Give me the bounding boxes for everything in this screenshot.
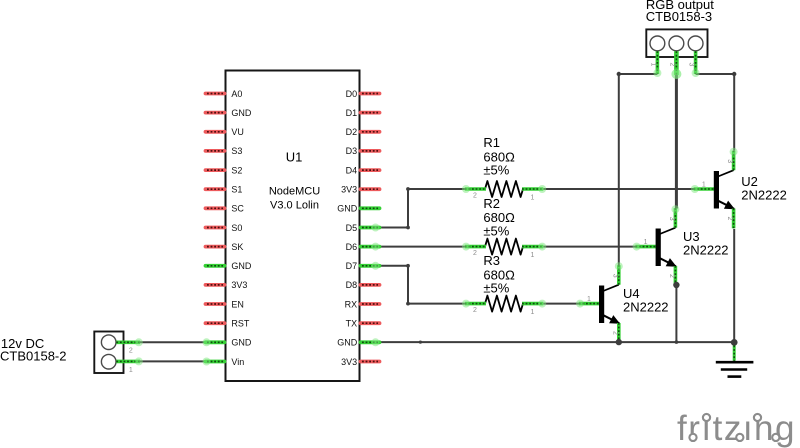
svg-text:D0: D0 bbox=[346, 89, 358, 99]
resistor R2 bbox=[462, 196, 546, 259]
svg-text:SC: SC bbox=[231, 204, 244, 214]
wire 12v pin1 to NodeMCU Vin bbox=[139, 360, 208, 362]
svg-text:2N2222: 2N2222 bbox=[683, 242, 729, 257]
label CTB0158-3 bbox=[646, 9, 712, 24]
svg-text:VU: VU bbox=[231, 127, 244, 137]
svg-text:EN: EN bbox=[231, 299, 244, 309]
svg-text:1: 1 bbox=[129, 367, 133, 374]
wire D6 to R2 bbox=[372, 246, 465, 248]
svg-text:D8: D8 bbox=[346, 280, 358, 290]
junction U2 emitter / ground on rail bbox=[731, 339, 738, 346]
svg-text:R3: R3 bbox=[483, 253, 500, 268]
IC U1 NodeMCU body bbox=[226, 71, 360, 382]
svg-text:1: 1 bbox=[644, 239, 648, 246]
wire D5 to R1 bbox=[372, 187, 465, 229]
svg-text:±5%: ±5% bbox=[483, 163, 509, 178]
12v pin 2 stub bbox=[116, 338, 143, 354]
pin right GND row 7 bbox=[337, 204, 379, 214]
svg-text:RX: RX bbox=[345, 299, 358, 309]
svg-text:3V3: 3V3 bbox=[231, 280, 247, 290]
svg-text:S2: S2 bbox=[231, 165, 242, 175]
pin left 3V3 row 11 bbox=[206, 280, 248, 290]
svg-text:±5%: ±5% bbox=[483, 224, 509, 239]
svg-text:U1: U1 bbox=[286, 150, 303, 165]
pin left VU row 3 bbox=[206, 127, 244, 137]
svg-text:2: 2 bbox=[129, 348, 133, 355]
wire R3 to U4 base bbox=[543, 303, 579, 305]
pin right D8 row 11 bbox=[346, 280, 380, 290]
wire middle vertical RGB pin2 to U3 collector bbox=[675, 74, 678, 209]
pin left GND row 14 bbox=[203, 338, 252, 348]
svg-text:GND: GND bbox=[231, 108, 252, 118]
pin right D2 row 3 bbox=[346, 127, 380, 137]
svg-text:GND: GND bbox=[337, 338, 358, 348]
svg-text:2: 2 bbox=[611, 331, 618, 335]
transistor U2 2N2222 bbox=[691, 148, 787, 229]
transistor U4 2N2222 bbox=[576, 262, 669, 343]
svg-text:NodeMCU: NodeMCU bbox=[269, 185, 320, 197]
svg-text:2: 2 bbox=[473, 193, 477, 200]
label CTB0158-2 bbox=[0, 349, 66, 364]
transistor U3 2N2222 bbox=[633, 205, 729, 286]
svg-text:1: 1 bbox=[702, 182, 706, 189]
pin right GND row 14 bbox=[337, 338, 379, 348]
pin left S1 row 6 bbox=[206, 185, 243, 195]
pin left S3 row 4 bbox=[206, 146, 243, 156]
svg-text:1: 1 bbox=[531, 309, 535, 316]
pin right TX row 13 bbox=[346, 319, 380, 329]
wire R1 to U2 base bbox=[543, 188, 694, 190]
svg-text:3: 3 bbox=[688, 63, 695, 67]
connector CTB0158-3 RGB output bbox=[646, 29, 707, 57]
pin right 3V3 row 6 bbox=[341, 185, 379, 195]
svg-text:GND: GND bbox=[231, 261, 252, 271]
svg-text:1: 1 bbox=[649, 63, 656, 67]
svg-text:2: 2 bbox=[668, 63, 675, 67]
svg-text:1: 1 bbox=[587, 296, 591, 303]
pin right D5 row 8 bbox=[346, 223, 380, 233]
RGB pin 1 stub bbox=[649, 51, 661, 77]
wire U2 emitter to rail bbox=[733, 229, 735, 342]
svg-text:D5: D5 bbox=[346, 223, 358, 233]
junction U3 emitter bendpoint bbox=[673, 282, 679, 288]
svg-text:2: 2 bbox=[668, 274, 675, 278]
svg-text:RST: RST bbox=[231, 319, 250, 329]
wire RGB pin3 to right vertical bbox=[696, 72, 737, 76]
svg-text:SK: SK bbox=[231, 242, 243, 252]
wire left vertical to U4 collector bbox=[618, 74, 620, 266]
svg-text:3V3: 3V3 bbox=[341, 185, 357, 195]
junction U4 emitter on rail bbox=[616, 339, 622, 345]
pin right D0 row 1 bbox=[346, 89, 380, 99]
svg-text:2: 2 bbox=[473, 250, 477, 257]
svg-text:CTB0158-2: CTB0158-2 bbox=[0, 349, 66, 364]
wire 12v pin2 to NodeMCU GND bbox=[139, 341, 208, 343]
wire right vertical RGB pin3 to U2 collector bbox=[733, 74, 735, 151]
pin left Vin row 15 bbox=[203, 357, 245, 367]
svg-text:3: 3 bbox=[611, 274, 618, 278]
svg-text:1: 1 bbox=[531, 252, 535, 259]
pin left S2 row 5 bbox=[206, 165, 243, 175]
svg-text:D4: D4 bbox=[346, 165, 358, 175]
svg-text:GND: GND bbox=[231, 338, 252, 348]
svg-text:1: 1 bbox=[531, 195, 535, 202]
label RGB output bbox=[646, 0, 714, 12]
label 12v DC bbox=[1, 336, 44, 351]
svg-text:S0: S0 bbox=[231, 223, 242, 233]
pin right D4 row 5 bbox=[346, 165, 380, 175]
svg-text:GND: GND bbox=[337, 204, 358, 214]
svg-text:R2: R2 bbox=[483, 196, 500, 211]
svg-text:Vin: Vin bbox=[231, 357, 244, 367]
wire R2 to U3 base bbox=[543, 246, 637, 248]
svg-text:V3.0 Lolin: V3.0 Lolin bbox=[270, 199, 319, 211]
pin right RX row 12 bbox=[345, 299, 380, 309]
svg-text:2N2222: 2N2222 bbox=[741, 188, 787, 203]
pin right D6 row 9 bbox=[346, 242, 380, 252]
pin left SC row 7 bbox=[206, 204, 245, 214]
svg-text:3V3: 3V3 bbox=[341, 357, 357, 367]
RGB pin 2 stub bbox=[668, 51, 681, 79]
resistor R3 bbox=[462, 253, 546, 316]
svg-text:D3: D3 bbox=[346, 146, 358, 156]
ground symbol bbox=[716, 346, 754, 377]
RGB pin 3 stub bbox=[688, 51, 700, 77]
pin left RST row 13 bbox=[206, 319, 250, 329]
svg-text:frıtzıng: frıtzıng bbox=[677, 409, 796, 448]
pin left S0 row 8 bbox=[206, 223, 243, 233]
svg-text:D6: D6 bbox=[346, 242, 358, 252]
pin right 3V3 row 15 bbox=[341, 357, 379, 367]
wire GND rail bbox=[372, 341, 735, 344]
12v pin 1 stub bbox=[116, 357, 143, 373]
svg-text:D1: D1 bbox=[346, 108, 358, 118]
pin right D1 row 2 bbox=[346, 108, 380, 118]
svg-text:D2: D2 bbox=[346, 127, 358, 137]
resistor R1 bbox=[462, 135, 546, 201]
svg-text:±5%: ±5% bbox=[483, 281, 509, 296]
pin left SK row 9 bbox=[206, 242, 244, 252]
svg-text:D7: D7 bbox=[346, 261, 358, 271]
svg-text:3: 3 bbox=[726, 159, 733, 163]
wire U3 emitter to rail bbox=[675, 285, 679, 344]
pin left A0 row 1 bbox=[206, 89, 243, 99]
pin right D7 row 10 bbox=[346, 261, 380, 271]
pin left EN row 12 bbox=[206, 299, 244, 309]
pin right D3 row 4 bbox=[346, 146, 380, 156]
svg-text:CTB0158-3: CTB0158-3 bbox=[646, 9, 712, 24]
svg-text:2: 2 bbox=[473, 307, 477, 314]
svg-text:A0: A0 bbox=[231, 89, 242, 99]
svg-text:S1: S1 bbox=[231, 185, 242, 195]
wire D7 to R3 bbox=[372, 264, 465, 306]
wire RGB pin1 to left vertical bbox=[617, 72, 658, 76]
svg-text:2N2222: 2N2222 bbox=[623, 299, 669, 314]
pin left GND row 10 bbox=[206, 261, 252, 271]
svg-text:2: 2 bbox=[726, 217, 733, 221]
svg-text:R1: R1 bbox=[483, 135, 500, 150]
connector CTB0158-2 12v DC bbox=[94, 332, 123, 374]
svg-text:TX: TX bbox=[346, 319, 358, 329]
svg-text:3: 3 bbox=[668, 217, 675, 221]
svg-text:S3: S3 bbox=[231, 146, 242, 156]
pin left GND row 2 bbox=[206, 108, 252, 118]
fritzing watermark bbox=[677, 409, 796, 448]
